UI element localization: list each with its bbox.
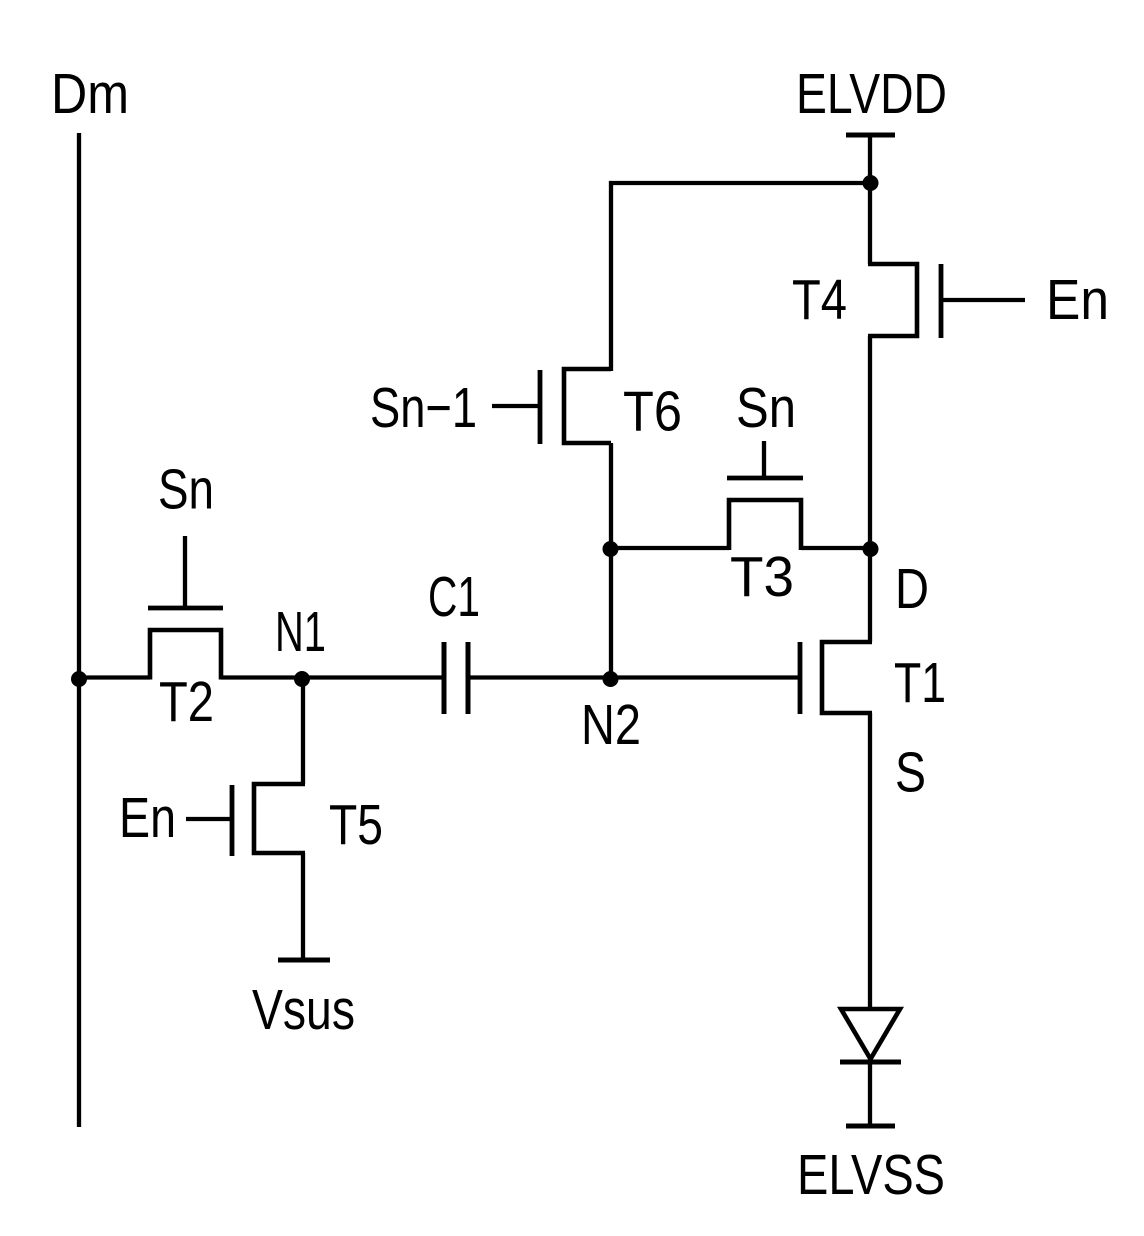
svg-text:S: S: [895, 741, 926, 805]
svg-text:Vsus: Vsus: [252, 978, 355, 1042]
svg-text:T1: T1: [894, 651, 946, 715]
svg-text:T6: T6: [623, 380, 682, 444]
svg-text:N2: N2: [581, 693, 641, 757]
svg-text:Dm: Dm: [51, 62, 129, 126]
svg-text:T4: T4: [792, 268, 847, 332]
svg-text:Sn−1: Sn−1: [370, 376, 477, 440]
svg-text:En: En: [119, 786, 176, 850]
svg-text:Sn: Sn: [736, 376, 796, 440]
svg-text:ELVDD: ELVDD: [796, 62, 947, 126]
svg-text:T2: T2: [159, 670, 214, 734]
svg-text:D: D: [895, 557, 929, 621]
svg-text:En: En: [1046, 268, 1109, 332]
svg-text:Sn: Sn: [158, 458, 214, 522]
svg-text:C1: C1: [428, 565, 480, 629]
svg-text:N1: N1: [275, 600, 326, 664]
svg-text:ELVSS: ELVSS: [797, 1143, 945, 1207]
svg-text:T5: T5: [329, 793, 383, 857]
svg-text:T3: T3: [730, 545, 794, 609]
